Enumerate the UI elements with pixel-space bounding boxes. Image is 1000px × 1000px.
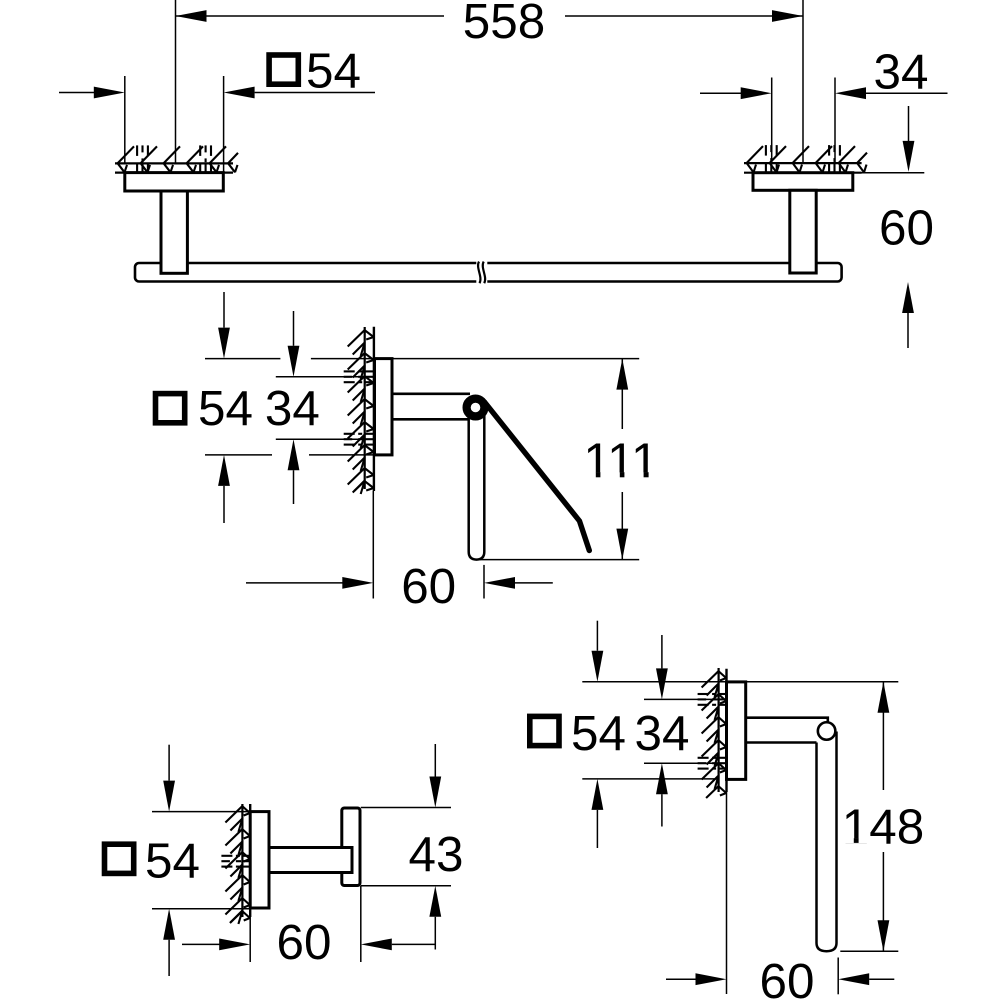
- dimension 54 arrows (view4): [596, 621, 598, 651]
- square symbol for 54 (view4): [530, 716, 559, 745]
- dimension 60 arrows (view1 right): [908, 106, 910, 142]
- svg-text:60: 60: [401, 559, 456, 614]
- wire: left extension line of 558 dimension: [175, 0, 177, 163]
- dimension 43 arrows: [434, 744, 436, 777]
- wire: 60 right extension line (view3): [360, 886, 362, 962]
- wire: 111 bottom extension line: [479, 559, 639, 561]
- VIEW 2: toilet paper holder, side view: [156, 292, 659, 614]
- wire: 60 extension lines (view2): [372, 491, 374, 599]
- wire: right extension line of 558 dimension: [802, 0, 804, 163]
- dimension 60 line (view4): [666, 978, 696, 980]
- pivot circle (view2): [467, 399, 485, 417]
- wall hatching right mount: [744, 162, 862, 164]
- hook head: [342, 808, 360, 886]
- hook rod: [269, 848, 352, 873]
- wire: 54 top extension line (view2): [205, 358, 280, 360]
- wall hatching (view2): [364, 327, 366, 489]
- wire: 34 extension lines (view4): [644, 698, 719, 700]
- square symbol for 54 (view1): [269, 55, 298, 84]
- svg-text:54: 54: [198, 381, 253, 436]
- svg-text:558: 558: [463, 0, 545, 49]
- dimension 34 line (view1): [700, 92, 741, 94]
- holder arm (view2): [392, 392, 470, 395]
- dimension 54 arrows (view3): [168, 745, 170, 781]
- VIEW 3: robe hook, side view: [105, 744, 464, 976]
- escutcheon plate (view4): [727, 682, 746, 780]
- wire: 34 extension lines (view2): [276, 376, 374, 378]
- cover flap: [485, 402, 590, 551]
- dimension 34 arrows (view4): [661, 635, 663, 668]
- left escutcheon plate: [125, 173, 224, 191]
- svg-text:54: 54: [306, 43, 361, 98]
- svg-text:34: 34: [874, 44, 929, 99]
- rail break symbol: [476, 261, 487, 284]
- svg-text:60: 60: [879, 201, 934, 256]
- wall hatching (view3): [241, 804, 243, 917]
- dimension 60 line (view3): [182, 943, 220, 945]
- wall surface line (view2): [373, 327, 375, 491]
- svg-text:60: 60: [277, 915, 332, 970]
- pivot circle (view4): [818, 722, 836, 740]
- svg-text:43: 43: [409, 827, 464, 882]
- ring arm (view4): [746, 718, 828, 723]
- svg-text:34: 34: [265, 381, 320, 436]
- wire: 111 top extension line: [392, 358, 639, 360]
- towel bar rail: [135, 263, 842, 282]
- wire: 54 extension lines (view3): [152, 811, 251, 813]
- svg-text:54: 54: [145, 833, 200, 888]
- escutcheon plate (view2): [375, 359, 393, 455]
- wire: extension lines of 34 (view1): [771, 78, 773, 164]
- VIEW 1: towel bar, front elevation: [59, 0, 948, 348]
- dimension 34 arrows (view2): [293, 311, 295, 346]
- wire: 54/148 top extension line (view4): [582, 681, 898, 683]
- right post: [790, 190, 816, 273]
- dimension 54 line (view1): [59, 92, 95, 94]
- svg-text:60: 60: [760, 954, 815, 1000]
- wire: 54 bottom extension line (view2): [205, 454, 272, 456]
- wire: 43 extension lines: [361, 807, 451, 809]
- wall surface line (view3): [249, 804, 251, 917]
- dimension 558 line: [176, 15, 445, 17]
- wall hatching left mount: [115, 162, 233, 164]
- wall surface line (view4): [725, 669, 727, 792]
- wall hatching (view4): [717, 668, 719, 792]
- paper roller pin: [469, 407, 485, 560]
- towel ring bar: [817, 732, 837, 952]
- wire: 148 bottom extension line: [840, 950, 898, 952]
- svg-text:148: 148: [842, 799, 924, 854]
- VIEW 4: towel ring holder, side view: [530, 621, 924, 1000]
- svg-text:54: 54: [571, 706, 626, 761]
- wire: 54 bottom extension line (view4): [582, 778, 718, 780]
- wire: extension lines of 54 (view1): [124, 76, 126, 163]
- right escutcheon plate: [753, 173, 853, 191]
- left post: [161, 191, 187, 273]
- svg-text:111: 111: [583, 433, 658, 488]
- dimension 54 arrows (view2): [223, 292, 225, 328]
- escutcheon plate (view3): [250, 812, 269, 908]
- svg-text:34: 34: [635, 706, 690, 761]
- dimension 148 line: [882, 682, 884, 790]
- dimension 60 line (view2): [246, 582, 343, 584]
- square symbol for 54 (view3): [105, 844, 134, 873]
- wire: 60 right extension line (view4): [837, 958, 839, 995]
- square symbol for 54 (view2): [156, 394, 185, 423]
- dimension 111 line: [621, 359, 623, 429]
